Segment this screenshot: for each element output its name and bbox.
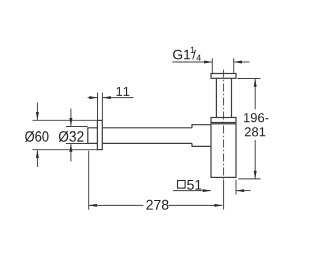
label 51 [187, 180, 201, 190]
dim 196-281: top extension line [238, 78, 261, 80]
label dia60 [25, 131, 49, 142]
dim 11: right arrowhead [103, 96, 111, 99]
dim G1 1/4: left arrowhead [204, 61, 212, 64]
dim dia32: top arrowhead [69, 118, 72, 126]
dim 196-281: bottom extension line [238, 178, 260, 180]
dim square51: extension line [235, 180, 237, 195]
dim 11: dimension line left [88, 97, 98, 99]
dim 196-281: vertical dimension line [254, 79, 256, 179]
dim 196-281: bottom arrowhead [254, 171, 257, 179]
dim dia32: bottom arrowhead [69, 144, 72, 152]
inlet nut at trap body [192, 125, 211, 147]
label 196- [244, 113, 268, 122]
dim G1 1/4: right arrowhead [234, 61, 242, 64]
dim square51: leader line [173, 190, 211, 192]
wall flange [97, 120, 102, 149]
dim dia32: arrow shafts [70, 109, 72, 162]
label G1 slash [192, 50, 196, 60]
label 278 [146, 200, 168, 210]
label 281 [245, 127, 265, 136]
dim 278: left arrowhead [89, 204, 97, 207]
vertical outlet pipe [216, 78, 231, 117]
dim square51: left arrowhead [203, 189, 211, 192]
dim 278: right arrowhead [214, 204, 222, 207]
top flange G1 1/4 [211, 74, 236, 79]
dim G1 1/4: leader line [173, 61, 213, 63]
dim 278: left extension line [88, 151, 90, 210]
dim dia60: extension lines [33, 120, 98, 149]
dim square51: right shaft [236, 190, 250, 192]
dim 278: dimension line [89, 204, 222, 206]
label G1 sup 1 [191, 47, 195, 53]
trap body cup [211, 124, 236, 178]
dim square51: right arrowhead [236, 189, 244, 192]
dim 11: extension lines [98, 93, 103, 121]
dim G1 1/4: right shaft [234, 61, 250, 63]
dim G1 1/4: extension lines [212, 58, 233, 73]
centerline of vertical pipe and body [223, 70, 225, 181]
label 11 [117, 87, 130, 96]
dim dia60: arrow shafts [36, 103, 38, 168]
dim dia60: top arrowhead [36, 112, 39, 120]
label G1 sub 4 [196, 55, 201, 61]
dim dia60: bottom arrowhead [36, 150, 39, 158]
wire: horizontal inlet pipe outline [88, 128, 192, 144]
label G1 [173, 50, 190, 60]
label square51: square symbol [178, 181, 186, 189]
dim 11: left arrowhead [89, 96, 97, 99]
centerline extension below body (278 dim reference) [223, 180, 225, 210]
dim 196-281: top arrowhead [254, 79, 257, 87]
dim dia32: extension lines [66, 127, 88, 144]
dim 11: dimension line right [103, 97, 134, 99]
upper union nut [211, 118, 236, 123]
label dia32 [59, 131, 84, 142]
